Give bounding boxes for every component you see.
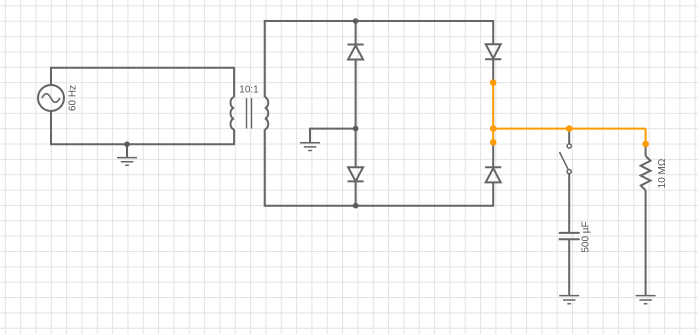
svg-text:500 µF: 500 µF xyxy=(581,221,592,252)
wire secondary bottom to bottom rail xyxy=(265,129,494,206)
node primary ground junction xyxy=(124,141,130,147)
diode D4 xyxy=(485,167,501,182)
node at D3 cathode xyxy=(490,79,497,86)
transformer T1 primary winding xyxy=(231,97,235,129)
ground (primary) xyxy=(117,158,137,166)
wire resistor to ground xyxy=(645,190,647,295)
wire switch to capacitor xyxy=(568,174,570,233)
switch SW1 xyxy=(560,144,572,174)
orange highlighted net xyxy=(493,83,645,144)
wire orange horizontal rail xyxy=(493,128,645,130)
wire middle branch upper xyxy=(355,21,357,45)
wire capacitor to ground xyxy=(568,239,570,295)
node bottom rail junction xyxy=(353,203,359,209)
ground (resistor) xyxy=(636,296,656,304)
wire middle branch center xyxy=(355,60,357,168)
wire secondary top to top rail xyxy=(265,21,494,97)
svg-text:10:1: 10:1 xyxy=(239,85,259,96)
node top rail junction xyxy=(353,18,359,24)
svg-text:10 MΩ: 10 MΩ xyxy=(657,158,668,188)
wire bottom of source to transformer primary xyxy=(51,111,234,144)
capacitor C1 xyxy=(559,233,580,239)
node at D4 anode xyxy=(490,139,497,146)
wire node to D4 xyxy=(492,142,494,167)
diode D3 xyxy=(485,44,501,59)
wire top of source to transformer primary xyxy=(51,68,234,98)
wire switch stub xyxy=(568,129,570,144)
AC voltage source V1 xyxy=(38,85,64,111)
resistor R1 xyxy=(641,156,651,190)
node at resistor top xyxy=(642,141,649,148)
wire orange vertical at bridge output xyxy=(492,83,494,143)
node at bridge output junction xyxy=(490,125,497,132)
ground (capacitor) xyxy=(559,296,579,304)
svg-text:60 Hz: 60 Hz xyxy=(68,85,79,111)
diode D1 xyxy=(348,45,364,60)
wire orange down to resistor xyxy=(645,129,647,144)
wire resistor top xyxy=(645,144,647,156)
node at switch tap xyxy=(566,125,573,132)
wire stub primary ground xyxy=(126,144,128,157)
wire center tap to ground xyxy=(310,129,356,143)
wire middle branch lower xyxy=(355,181,357,205)
node center tap junction xyxy=(353,126,359,132)
diode D2 xyxy=(348,167,364,181)
transformer T1 core xyxy=(247,98,252,129)
ground (center tap) xyxy=(300,143,320,151)
transformer T1 secondary winding xyxy=(265,97,269,129)
wire D3 to node xyxy=(492,59,494,82)
